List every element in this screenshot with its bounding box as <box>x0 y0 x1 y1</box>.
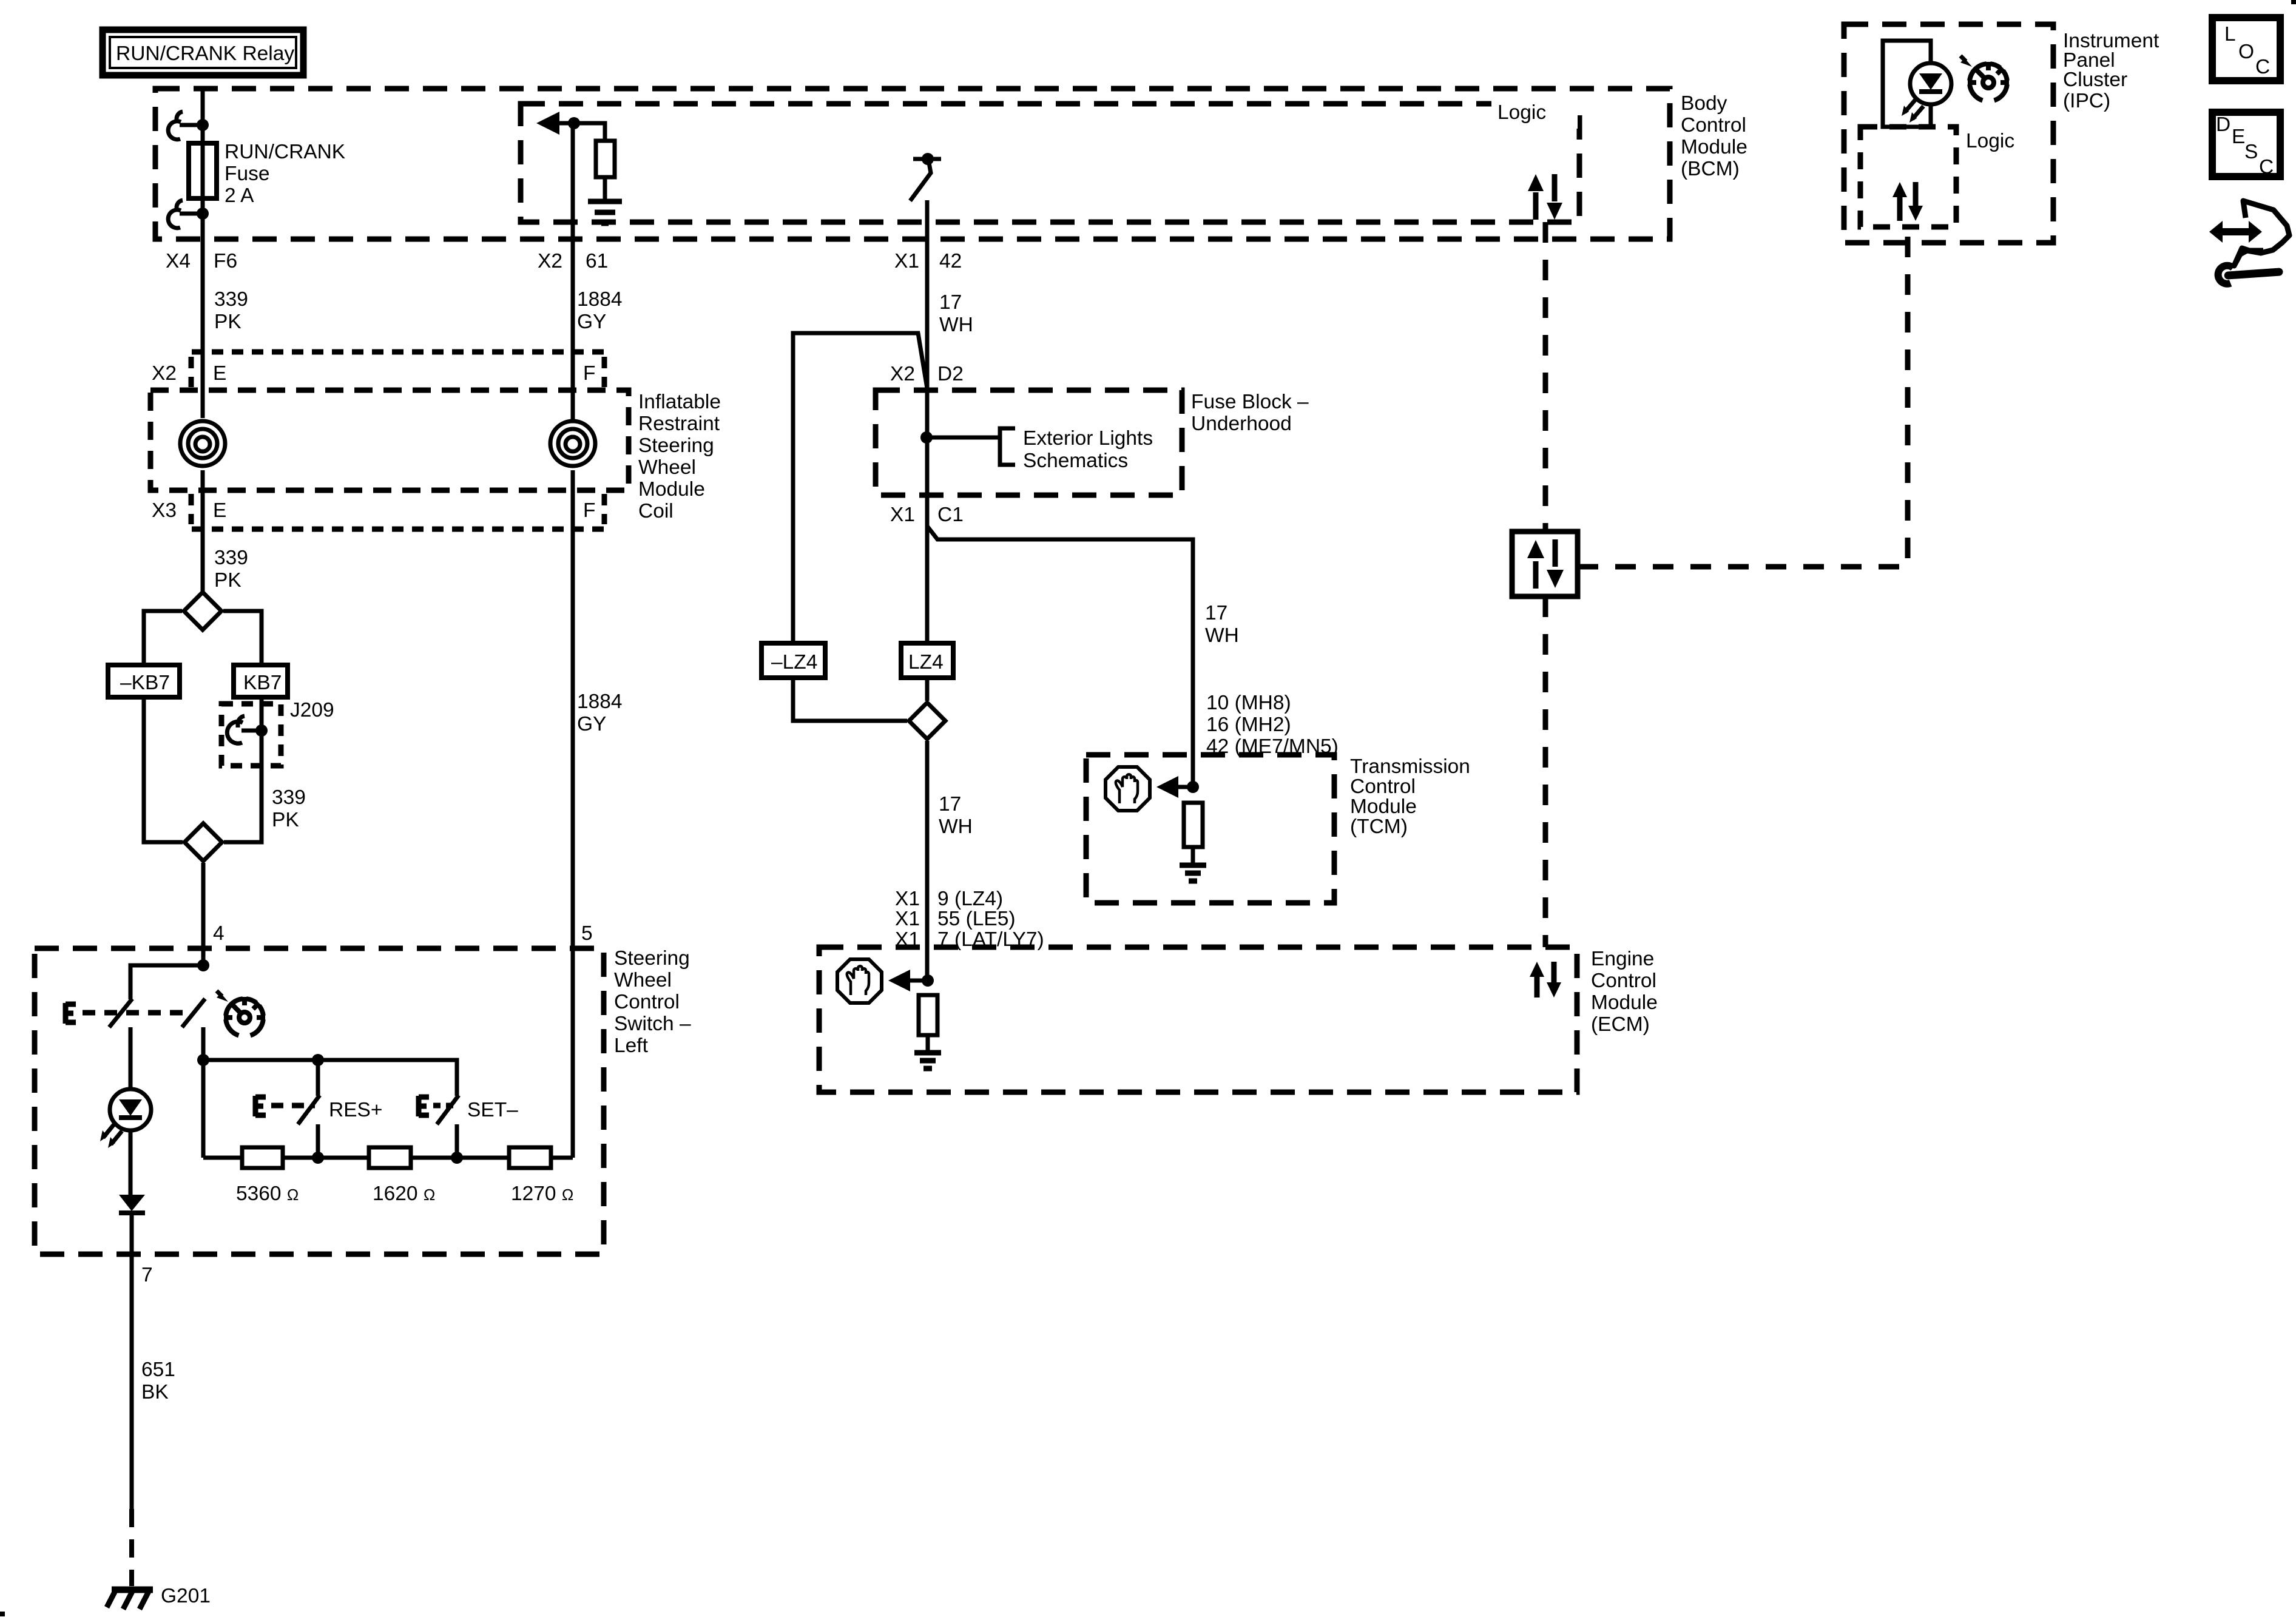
splice pack J209 dashed box <box>221 704 281 766</box>
wire: branch to TCM 17 WH <box>927 526 1193 787</box>
ground (BCM internal) <box>588 201 622 223</box>
wire: 651 BK to ground <box>130 1254 134 1509</box>
svg-text:Steering: Steering <box>638 434 714 457</box>
svg-text:WH: WH <box>939 314 973 336</box>
svg-text:RUN/CRANK Relay: RUN/CRANK Relay <box>116 42 294 65</box>
svg-text:F: F <box>583 499 595 522</box>
indicator LED lamp <box>100 1089 151 1148</box>
ECM label <box>1591 948 1658 1036</box>
svg-text:Switch –: Switch – <box>614 1013 691 1035</box>
cruise on/off switch SW2 blade <box>182 999 205 1027</box>
IPC cruise indicator LED <box>1902 63 1951 123</box>
hand icon (TCM driver disable) <box>1106 767 1150 811</box>
pin label X1 C1 <box>890 504 964 526</box>
IPC Logic inner dashed box <box>1860 127 1956 227</box>
serial data arrows (BCM) <box>1528 174 1562 220</box>
serial data arrows (ECM) <box>1530 962 1561 998</box>
wire: RES+ branch lower stub <box>316 1124 320 1158</box>
svg-text:X2: X2 <box>890 363 915 385</box>
svg-text:X3: X3 <box>152 499 177 522</box>
svg-text:Coil: Coil <box>638 500 674 522</box>
Fuse Block - Underhood dashed box <box>876 390 1182 495</box>
resistor BCM internal <box>596 141 615 177</box>
svg-text:17: 17 <box>939 793 961 815</box>
wire: SW2 to resistor rail <box>201 1027 206 1158</box>
wire: left branch to -KB7 <box>144 611 182 665</box>
resistor ECM internal <box>919 995 937 1035</box>
clockspring coil left <box>180 421 225 466</box>
fuse RUN/CRANK 2A <box>189 143 217 198</box>
fuse value label <box>225 141 345 207</box>
steering wheel switch label <box>614 947 691 1057</box>
switch SW1 on/off blade <box>109 999 132 1027</box>
svg-text:E: E <box>2232 126 2245 148</box>
cruise gauge icon <box>217 991 265 1036</box>
Body Control Module (BCM) label <box>1681 92 1747 180</box>
svg-text:LZ4: LZ4 <box>908 651 944 673</box>
svg-text:Left: Left <box>614 1035 649 1057</box>
svg-text:BK: BK <box>141 1381 169 1403</box>
node: RES+ top junction <box>312 1054 324 1066</box>
svg-text:D: D <box>2216 113 2230 136</box>
wire label 1884 GY upper <box>577 288 623 333</box>
pin label X2 D2 <box>890 363 964 385</box>
svg-text:Underhood: Underhood <box>1191 413 1292 435</box>
coil module label <box>638 391 721 522</box>
svg-text:61: 61 <box>586 250 608 272</box>
schematic navigation tool icon <box>2209 201 2289 285</box>
svg-text:651: 651 <box>141 1359 175 1381</box>
J209 terminal hook <box>227 716 268 743</box>
serial data dashed line splice box to ECM <box>1543 596 1548 947</box>
Engine Control Module (ECM) dashed box <box>819 947 1577 1092</box>
option box LZ4 <box>901 643 953 678</box>
relay contact terminal bottom <box>168 200 209 228</box>
IPC label <box>2063 30 2159 112</box>
hand icon (ECM driver disable) <box>837 959 882 1003</box>
svg-text:–LZ4: –LZ4 <box>771 651 817 673</box>
connector X2 row labels <box>152 357 604 387</box>
svg-text:PK: PK <box>214 311 241 333</box>
svg-text:Module: Module <box>638 478 705 501</box>
wire label 339 PK (second) <box>214 547 248 592</box>
svg-text:D2: D2 <box>937 363 964 385</box>
connector X3 row labels <box>152 494 604 524</box>
wire: RES+ branch upper <box>316 1060 320 1096</box>
svg-text:55 (LE5): 55 (LE5) <box>937 908 1016 930</box>
svg-text:SET–: SET– <box>467 1099 518 1121</box>
wire: -LZ4 to splice <box>793 678 907 721</box>
wire: below SW1 to indicator <box>129 1027 133 1090</box>
svg-text:339: 339 <box>272 786 306 809</box>
BCM Logic label <box>1491 97 1578 129</box>
TCM label <box>1350 755 1470 838</box>
wire: -KB7 down to splice rail <box>144 697 183 842</box>
pin labels X1 9 (LZ4) / X1 55 (LE5) / X1 7 (LAT/LY7) <box>895 888 1044 951</box>
svg-text:4: 4 <box>213 922 225 945</box>
svg-text:Fuse: Fuse <box>225 163 269 185</box>
page corner mark bottom-left <box>0 1612 5 1616</box>
svg-text:Control: Control <box>1591 970 1656 992</box>
svg-text:5: 5 <box>581 922 593 945</box>
resistor 1620 ohm <box>369 1147 435 1205</box>
resistor 1270 ohm <box>509 1147 573 1205</box>
wire label 17 WH (ECM) <box>939 793 973 838</box>
wire: splice S2 to switch box <box>201 863 206 965</box>
svg-text:Cluster: Cluster <box>2063 69 2127 91</box>
option box -LZ4 <box>761 643 825 678</box>
svg-text:Module: Module <box>1591 991 1658 1014</box>
pin label X2 61 <box>538 250 608 272</box>
wire label 17 WH <box>939 291 973 336</box>
svg-text:Fuse Block –: Fuse Block – <box>1191 391 1309 413</box>
node: switch feed junction <box>197 959 209 971</box>
node: ECM input junction <box>922 974 934 987</box>
svg-text:16 (MH2): 16 (MH2) <box>1206 714 1291 736</box>
connector boundary fine dashed lines <box>192 349 606 355</box>
svg-text:339: 339 <box>214 288 248 311</box>
node: exterior lights tap <box>920 431 933 444</box>
option box KB7 <box>234 665 288 697</box>
svg-text:X2: X2 <box>152 362 177 385</box>
IPC lamp driver loop <box>1883 41 1931 127</box>
wire label 17 WH (TCM branch) <box>1205 602 1239 647</box>
wire: bottom resistor rail <box>203 1156 573 1160</box>
svg-text:(IPC): (IPC) <box>2063 90 2110 112</box>
svg-text:Schematics: Schematics <box>1023 450 1128 472</box>
svg-text:Engine: Engine <box>1591 948 1654 970</box>
svg-text:Exterior Lights: Exterior Lights <box>1023 427 1153 450</box>
svg-text:Wheel: Wheel <box>638 456 696 479</box>
wire: 17 WH to ECM <box>925 741 930 981</box>
svg-text:X1: X1 <box>890 504 915 526</box>
clockspring coil right <box>550 421 595 466</box>
node: rail junction at RES+ <box>312 1152 324 1164</box>
wire: dashed continuation to G201 <box>129 1509 134 1586</box>
serial data splice box <box>1512 532 1578 596</box>
svg-text:E: E <box>213 362 226 385</box>
svg-text:Logic: Logic <box>1497 101 1546 124</box>
wire: resistor to ground <box>603 177 607 200</box>
wire: BCM junction down (1884 GY inside BCM) <box>571 123 575 421</box>
svg-text:E: E <box>213 499 226 522</box>
wire: top rail <box>203 1060 457 1096</box>
svg-text:KB7: KB7 <box>243 672 282 694</box>
svg-text:(TCM): (TCM) <box>1350 815 1408 838</box>
svg-text:Body: Body <box>1681 92 1727 115</box>
svg-text:Wheel: Wheel <box>614 969 672 991</box>
wire label 651 BK <box>141 1359 175 1403</box>
ground (TCM internal) <box>1180 865 1206 881</box>
switch SET- blade <box>437 1095 459 1124</box>
svg-text:S: S <box>2244 141 2258 163</box>
svg-text:G201: G201 <box>161 1585 211 1607</box>
wire: resistor to ground (ECM) <box>926 1035 930 1052</box>
svg-text:PK: PK <box>214 569 241 592</box>
svg-text:WH: WH <box>1205 624 1239 647</box>
svg-text:Module: Module <box>1681 136 1747 158</box>
IPC gauge icon <box>1960 56 2009 101</box>
BCM Logic inner dashed box <box>521 104 1579 222</box>
svg-text:X1: X1 <box>894 250 919 272</box>
svg-text:–KB7: –KB7 <box>120 672 170 694</box>
svg-text:9 (LZ4): 9 (LZ4) <box>937 888 1003 910</box>
switch RES+ blade <box>298 1095 320 1124</box>
underhood fuse block / BCM outer dashed box <box>155 89 1670 239</box>
TCM input arrow <box>1156 776 1193 798</box>
svg-text:1620 Ω: 1620 Ω <box>373 1183 435 1205</box>
node: rail top junction <box>197 1054 209 1066</box>
wire label 339 PK (third) <box>272 786 306 831</box>
wire label 339 PK <box>214 288 248 333</box>
wire: LZ4 to splice <box>925 678 930 701</box>
svg-text:Control: Control <box>1681 114 1746 137</box>
node: rail junction at SET- <box>451 1152 463 1164</box>
wire: 1884 GY vertical <box>571 470 575 1158</box>
BCM cruise request switch <box>910 153 941 201</box>
schematic reference bracket <box>1000 428 1015 465</box>
wire: LED to diode <box>129 1130 133 1196</box>
wire: run/crank feed vertical <box>201 89 205 418</box>
wire label 1884 GY lower <box>577 690 623 735</box>
wire: X1-42 17 WH vertical <box>925 200 930 643</box>
svg-text:PK: PK <box>272 809 299 831</box>
svg-text:J209: J209 <box>290 699 334 721</box>
svg-text:1270 Ω: 1270 Ω <box>511 1183 573 1205</box>
RUN/CRANK Relay title box <box>103 30 303 75</box>
svg-text:F6: F6 <box>214 250 237 272</box>
svg-text:X4: X4 <box>166 250 191 272</box>
wire: diode to pin 7 <box>130 1213 134 1254</box>
Transmission Control Module (TCM) dashed box <box>1086 755 1334 903</box>
svg-text:10 (MH8): 10 (MH8) <box>1206 692 1291 714</box>
svg-text:C: C <box>2259 156 2274 178</box>
svg-text:GY: GY <box>577 713 606 735</box>
Steering Wheel Control Switch - Left dashed box <box>35 948 604 1254</box>
svg-text:Steering: Steering <box>614 947 690 970</box>
svg-text:5360 Ω: 5360 Ω <box>236 1183 299 1205</box>
splice diamond S3 <box>909 703 945 739</box>
wire: branch to pull-up resistor <box>574 123 605 141</box>
ECM input arrow <box>888 970 928 991</box>
svg-text:C: C <box>2255 56 2270 78</box>
LOC reference box <box>2212 18 2280 81</box>
svg-text:Module: Module <box>1350 795 1417 818</box>
svg-text:O: O <box>2238 41 2254 63</box>
pin label X1 42 <box>894 250 962 272</box>
wire: resistor to ground (TCM) <box>1191 847 1195 864</box>
svg-text:1884: 1884 <box>577 690 623 713</box>
resistor TCM internal <box>1184 803 1203 847</box>
ground G201 <box>107 1585 211 1609</box>
wire: SET- branch lower stub <box>455 1124 459 1158</box>
BCM output driver arrow (X2-61) <box>536 112 574 135</box>
Instrument Panel Cluster (IPC) dashed box <box>1844 24 2053 243</box>
DESC reference box <box>2212 112 2280 178</box>
node: TCM input junction <box>1187 781 1199 793</box>
svg-text:Control: Control <box>1350 775 1416 798</box>
wire: tap to bracket <box>927 436 1000 440</box>
svg-text:L: L <box>2224 23 2236 46</box>
switch RES+ actuator E <box>255 1096 315 1116</box>
svg-text:Restraint: Restraint <box>638 413 720 435</box>
svg-text:Inflatable: Inflatable <box>638 391 721 413</box>
svg-text:WH: WH <box>939 815 973 838</box>
svg-text:17: 17 <box>1205 602 1227 624</box>
svg-text:X1: X1 <box>895 908 920 930</box>
svg-text:GY: GY <box>577 311 606 333</box>
diode CR1 <box>119 1195 145 1213</box>
relay contact terminal top <box>168 112 209 140</box>
svg-text:F: F <box>583 362 595 385</box>
wire: branch to on/off switch <box>130 965 203 999</box>
svg-text:7: 7 <box>141 1264 153 1286</box>
switch SET- actuator E <box>419 1096 455 1116</box>
svg-text:Logic: Logic <box>1966 130 2014 152</box>
svg-text:17: 17 <box>939 291 962 314</box>
svg-text:339: 339 <box>214 547 248 569</box>
option box -KB7 <box>108 665 180 697</box>
page corner mark top-right <box>2291 0 2296 4</box>
svg-text:(ECM): (ECM) <box>1591 1013 1650 1036</box>
wire: KB7 down through J209 <box>224 697 262 842</box>
svg-text:RUN/CRANK: RUN/CRANK <box>225 141 345 163</box>
serial data arrows (IPC) <box>1893 182 1923 221</box>
svg-text:Transmission: Transmission <box>1350 755 1470 778</box>
wire: right branch to KB7 <box>223 611 262 665</box>
splice diamond S1 <box>184 592 221 630</box>
wire: branch to -LZ4 <box>793 333 927 643</box>
ground (ECM internal) <box>914 1053 941 1068</box>
fuse block label <box>1191 391 1309 435</box>
Inflatable Restraint Steering Wheel Module Coil dashed box <box>150 390 629 490</box>
svg-text:RES+: RES+ <box>329 1099 382 1121</box>
pin label X4 F6 <box>166 250 237 272</box>
node: BCM 1884 junction <box>568 117 580 129</box>
svg-text:1884: 1884 <box>577 288 623 311</box>
resistor 5360 ohm <box>236 1147 299 1205</box>
pin label 10 (MH8) 16 (MH2) 42 (ME7/MN5) <box>1206 692 1339 758</box>
svg-text:X1: X1 <box>895 888 920 910</box>
serial data dashed line BCM to splice box <box>1543 222 1548 532</box>
svg-text:X2: X2 <box>538 250 562 272</box>
svg-text:C1: C1 <box>937 504 964 526</box>
Exterior Lights Schematics label <box>1023 427 1153 472</box>
svg-text:42: 42 <box>939 250 962 272</box>
wire: 339 PK below coil <box>201 470 205 593</box>
svg-text:(BCM): (BCM) <box>1681 158 1740 180</box>
svg-text:Control: Control <box>614 991 680 1013</box>
serial data dashed line splice box to IPC <box>1578 227 1908 567</box>
svg-text:2 A: 2 A <box>225 184 254 207</box>
switch SW1 actuator E <box>66 1003 189 1024</box>
splice diamond S2 <box>184 823 222 861</box>
